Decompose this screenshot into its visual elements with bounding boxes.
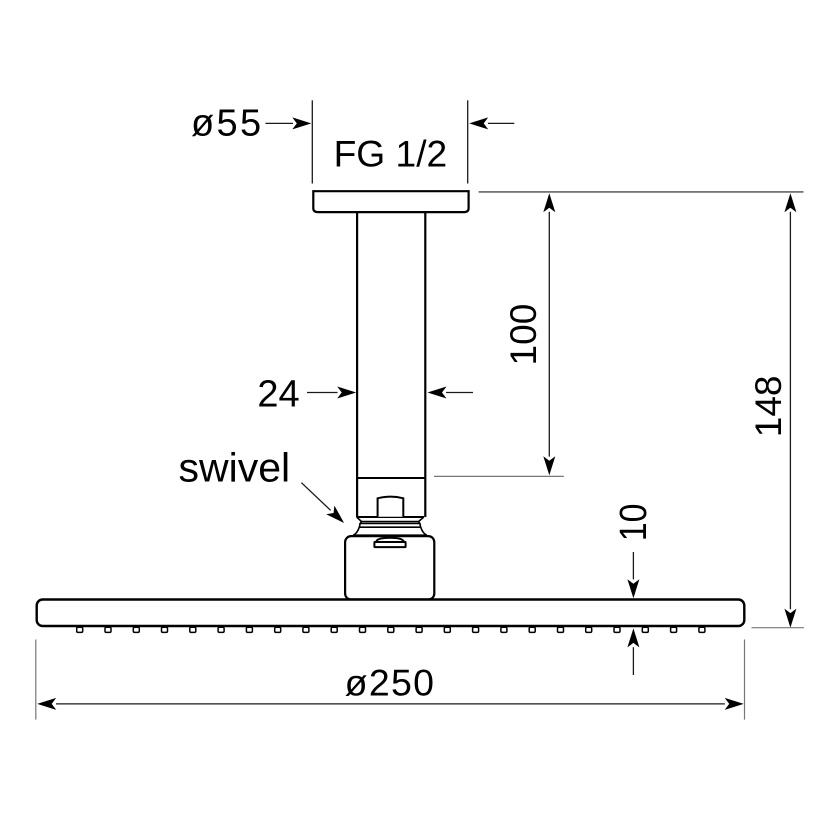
svg-text:10: 10 [613, 504, 655, 542]
svg-text:swivel: swivel [179, 444, 291, 490]
svg-text:148: 148 [748, 376, 789, 438]
svg-text:24: 24 [257, 374, 299, 416]
svg-text:100: 100 [503, 304, 544, 366]
svg-text:FG 1/2: FG 1/2 [334, 133, 448, 175]
svg-text:ø250: ø250 [345, 661, 436, 703]
svg-text:ø55: ø55 [191, 102, 263, 144]
